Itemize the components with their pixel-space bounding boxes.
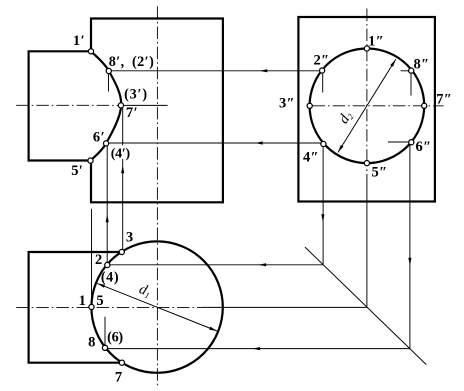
- svg-text:8″: 8″: [413, 56, 429, 72]
- svg-text:3: 3: [126, 230, 133, 246]
- transfer row axis (y=307.4): [202, 306, 367, 308]
- arrow left on transfer row 2: [258, 263, 266, 266]
- shared vertical centerline front+top view: [156, 6, 158, 385]
- d2 diameter dimension line: [338, 59, 396, 152]
- svg-text:1″: 1″: [368, 33, 384, 49]
- point 6" side: [409, 140, 414, 145]
- svg-text:7′: 7′: [126, 105, 138, 121]
- side view vertical centerline: [366, 9, 368, 164]
- point 3" side: [307, 103, 312, 108]
- svg-text:7: 7: [115, 370, 122, 386]
- stub below 8' front: [108, 73, 110, 91]
- point 3 top: [119, 249, 124, 254]
- projection line 8'-2" (row y=70.8): [109, 70, 322, 72]
- arrow left on transfer row 8: [252, 347, 260, 350]
- svg-text:3″: 3″: [279, 95, 295, 111]
- transfer col 2"/4" to 45 line: [322, 146, 324, 264]
- svg-text:1′: 1′: [73, 33, 85, 49]
- arrow left on row 6'-4": [255, 141, 263, 144]
- arrow up on col 7'-3: [121, 166, 124, 174]
- projection line 6' to 2 (col x=107.2): [106, 146, 108, 263]
- point (3')7' front: [118, 103, 123, 108]
- top view horizontal centerline: [16, 306, 201, 308]
- svg-text:8′, (2′): 8′, (2′): [109, 54, 155, 70]
- svg-text:2: 2: [95, 252, 102, 268]
- svg-text:5: 5: [96, 293, 103, 309]
- side view circle d2: [310, 49, 425, 164]
- svg-text:(6): (6): [107, 330, 123, 346]
- point 7 top: [119, 360, 124, 365]
- transfer row to point 8 (y=348.6): [107, 348, 410, 350]
- point 2(4) top: [105, 262, 110, 267]
- point 2" side: [320, 68, 325, 73]
- projection line 6'-4" (row y=143): [106, 142, 322, 144]
- svg-text:(3′): (3′): [124, 87, 148, 103]
- centerline dot below 5": [366, 169, 368, 171]
- point 7" side: [422, 103, 427, 108]
- projection line 5' to 1/5 (col x=91.5): [91, 209, 93, 304]
- transfer row to point 2 (y=264.8): [110, 264, 323, 266]
- svg-text:8: 8: [88, 335, 95, 351]
- point 8'(2') front: [106, 68, 111, 73]
- 45 degree miter line: [305, 247, 426, 365]
- svg-text:2″: 2″: [313, 52, 329, 68]
- label (4'): [111, 146, 131, 160]
- front view intersection curve arc: [91, 51, 122, 160]
- point 6'(4') front: [104, 141, 109, 146]
- svg-text:4″: 4″: [303, 150, 319, 166]
- arrow down on col 6"/8": [408, 258, 411, 266]
- top view circle d1: [91, 241, 222, 372]
- arrow down on col 2"/4": [321, 214, 324, 222]
- svg-text:(4): (4): [101, 270, 119, 286]
- side view horizontal centerline: [313, 105, 444, 107]
- front view horizontal centerline solid end: [119, 104, 168, 106]
- point 1' front: [88, 49, 93, 54]
- svg-text:6′: 6′: [93, 130, 105, 146]
- arrow up on col 6'-2: [106, 215, 109, 223]
- svg-text:(4′): (4′): [111, 146, 131, 161]
- transfer col 5" axis to 45 line: [366, 174, 368, 307]
- side view rectangle: [298, 17, 435, 202]
- stub below 2": [322, 74, 324, 93]
- point 1" side: [364, 46, 369, 51]
- svg-text:5″: 5″: [371, 165, 387, 181]
- point 5" side: [364, 161, 369, 166]
- arrow left on row 8'-2": [260, 69, 268, 72]
- stub below 8": [410, 73, 412, 96]
- front view horizontal centerline: [16, 104, 119, 106]
- stub left of 6": [388, 141, 410, 143]
- point 4" side: [321, 141, 326, 146]
- transfer col 6"/8" to 45 line: [409, 145, 411, 349]
- top view plate outline: [29, 252, 122, 363]
- front view cylinder outline (big rectangle): [91, 19, 223, 203]
- point 5' front: [88, 158, 93, 163]
- point 1/5 top: [89, 304, 94, 309]
- d1 diameter dimension line: [97, 283, 217, 331]
- svg-text:7″: 7″: [436, 92, 452, 108]
- svg-text:6″: 6″: [415, 139, 431, 155]
- point 8" side: [409, 68, 414, 73]
- front view plate outline: [29, 51, 91, 160]
- svg-text:1: 1: [79, 293, 86, 309]
- projection line 7' to 3 (col x=122.7): [122, 108, 124, 250]
- svg-text:5′: 5′: [71, 163, 83, 179]
- stub left of 8": [401, 70, 410, 72]
- stub above 8 (col x=105): [104, 317, 106, 345]
- point 8(6) top: [102, 345, 107, 350]
